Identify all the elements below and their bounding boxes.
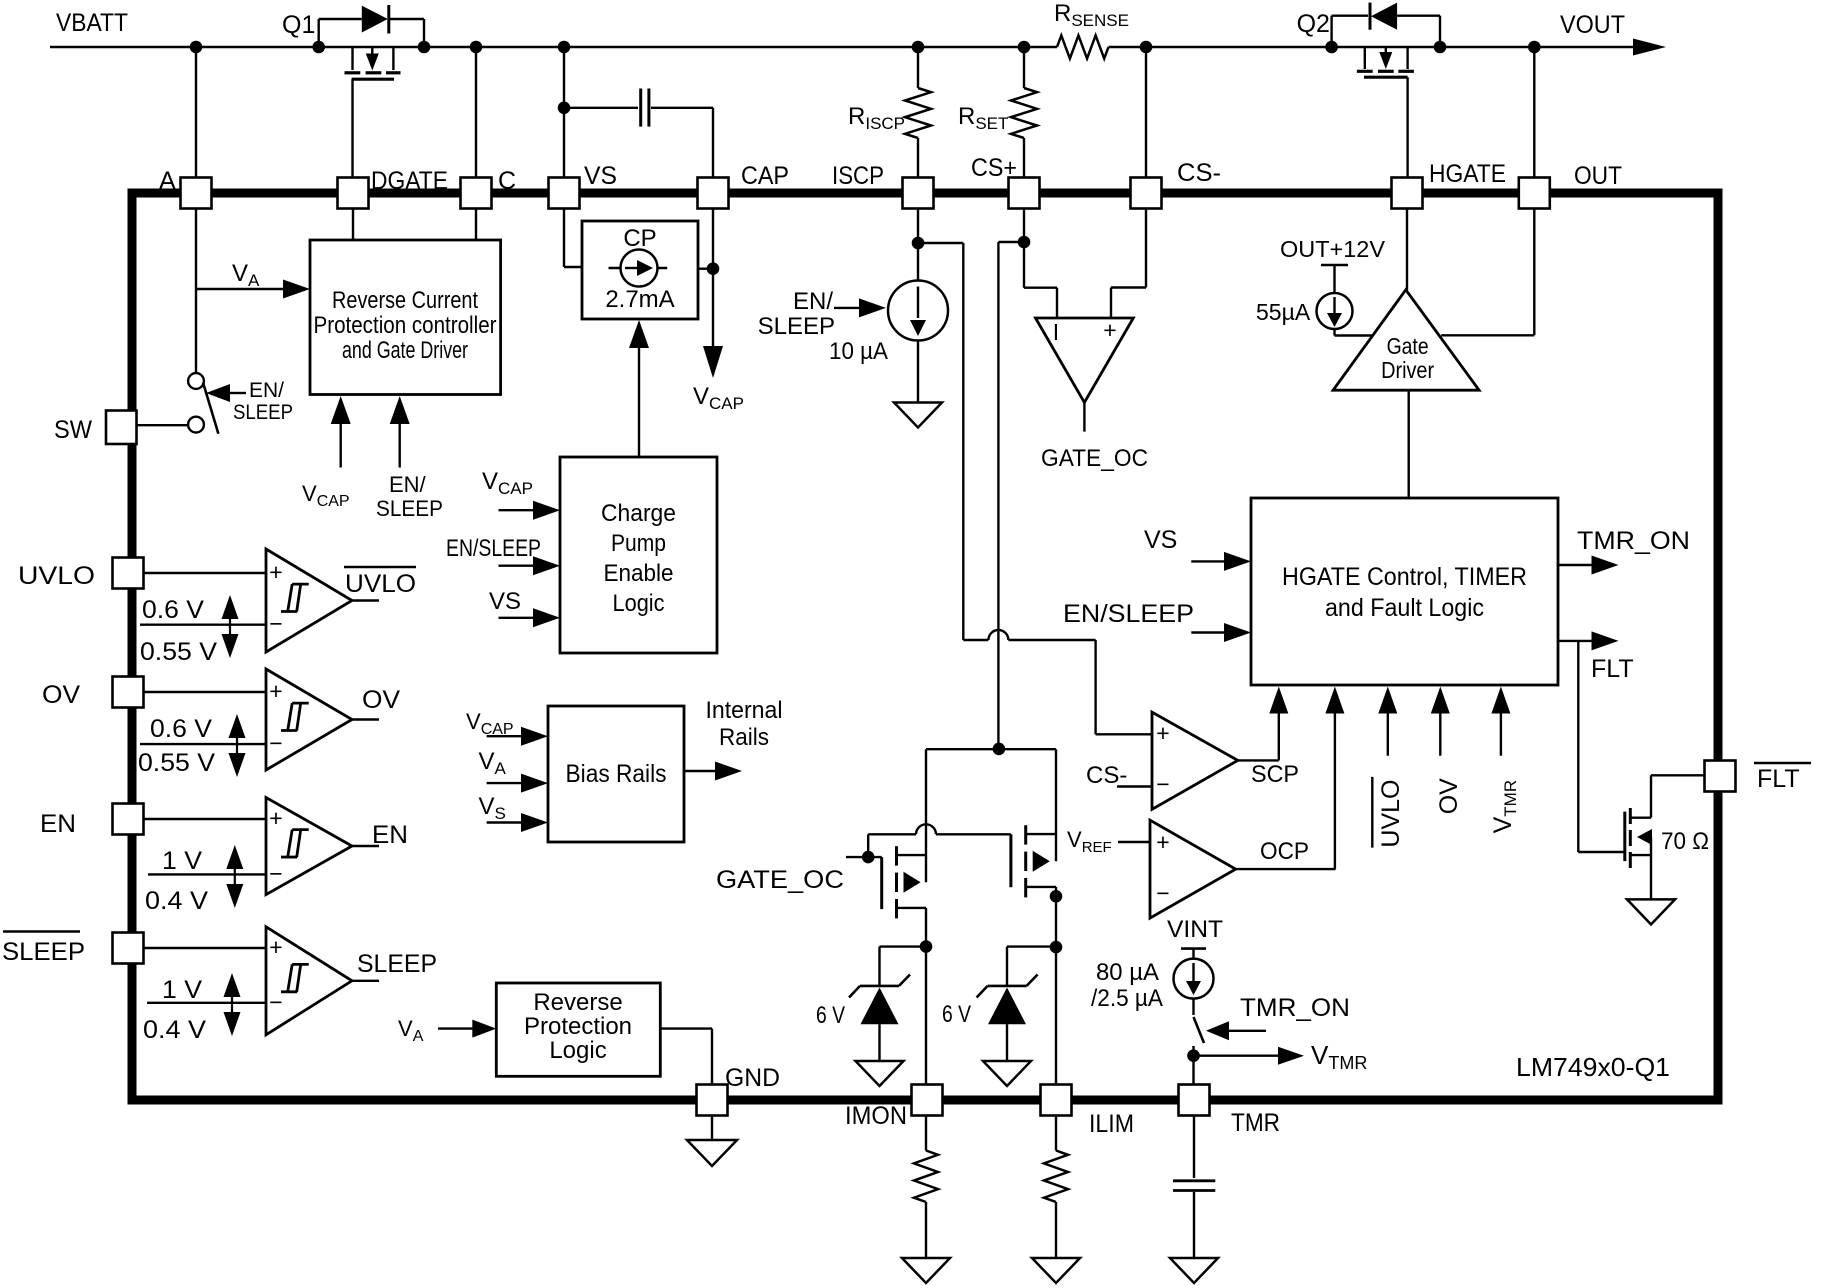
svg-text:+: + bbox=[269, 805, 282, 831]
wire VBATT top rail bbox=[50, 46, 1633, 48]
arrow OV into HGATE control bbox=[1431, 687, 1450, 756]
ground (TMR) bbox=[1170, 1258, 1218, 1283]
svg-text:1 V: 1 V bbox=[162, 847, 202, 875]
svg-text:80 µA: 80 µA bbox=[1096, 959, 1159, 986]
label 55uA bbox=[1256, 299, 1311, 325]
wire HGATE pin to gate driver bbox=[1406, 209, 1408, 291]
label 0.4 V (EN) bbox=[145, 887, 208, 915]
comparator OCP bbox=[1150, 820, 1236, 918]
arrow VTMR into HGATE control bbox=[1491, 687, 1510, 756]
svg-text:I: I bbox=[1053, 319, 1059, 345]
svg-text:SLEEP: SLEEP bbox=[376, 496, 443, 521]
comparator GATE_OC sense amp bbox=[1036, 317, 1134, 403]
svg-text:CS-: CS- bbox=[1086, 762, 1127, 789]
arrow VCAP into RCP box bbox=[331, 396, 351, 468]
arrow Internal Rails output bbox=[684, 762, 742, 781]
wire GND pin to ground bbox=[711, 1116, 713, 1141]
arrow EN/SLEEP into CPEL bbox=[499, 556, 561, 575]
transistor Q1 bbox=[345, 47, 401, 178]
arrow CP enable into CP box bbox=[629, 320, 649, 457]
label pin UVLO bbox=[18, 562, 95, 590]
wire C column to rail bbox=[470, 41, 483, 178]
svg-text:Bias Rails: Bias Rails bbox=[566, 760, 667, 788]
svg-text:EN/: EN/ bbox=[389, 472, 427, 497]
svg-text:SCP: SCP bbox=[1251, 761, 1299, 788]
label pin TMR bbox=[1231, 1109, 1280, 1137]
label pin CS+ bbox=[971, 154, 1017, 182]
svg-text:HGATE: HGATE bbox=[1429, 160, 1506, 188]
svg-text:−: − bbox=[1156, 771, 1169, 797]
svg-text:OV: OV bbox=[42, 681, 80, 709]
comparator UVLO bbox=[140, 549, 379, 652]
wire SCP output bbox=[1238, 759, 1279, 761]
svg-text:TMR: TMR bbox=[1231, 1109, 1280, 1137]
label pin C bbox=[498, 167, 516, 195]
svg-text:VBATT: VBATT bbox=[56, 9, 128, 37]
svg-text:Gate: Gate bbox=[1387, 333, 1429, 359]
label VCAP (CPEL) bbox=[482, 468, 533, 498]
svg-text:SLEEP: SLEEP bbox=[2, 938, 85, 966]
label pin CS- bbox=[1177, 159, 1221, 187]
label VCAP (below CAP) bbox=[693, 383, 744, 413]
label RISCP bbox=[848, 103, 905, 133]
current source 10uA bbox=[888, 281, 948, 341]
label VA (RCP input) bbox=[232, 260, 260, 290]
wire A column bbox=[195, 47, 197, 373]
svg-text:DGATE: DGATE bbox=[371, 167, 448, 195]
svg-text:FLT: FLT bbox=[1591, 655, 1634, 683]
svg-text:SLEEP: SLEEP bbox=[758, 313, 835, 340]
svg-text:−: − bbox=[269, 989, 282, 1015]
switch TMR_ON bbox=[1187, 999, 1204, 1085]
wire TMR pin down bbox=[1193, 1116, 1195, 1179]
label OV comparator output bbox=[362, 686, 400, 714]
svg-text:EN: EN bbox=[40, 810, 76, 838]
resistor RSET bbox=[1011, 47, 1037, 178]
svg-text:UVLO: UVLO bbox=[1377, 780, 1405, 848]
svg-text:FLT: FLT bbox=[1757, 765, 1800, 793]
wire OUT column bbox=[1533, 47, 1535, 178]
svg-text:10 µA: 10 µA bbox=[829, 338, 888, 365]
arrow EN/SLEEP into 10uA source bbox=[834, 298, 886, 317]
svg-text:Driver: Driver bbox=[1381, 357, 1434, 383]
resistor RISCP bbox=[905, 47, 931, 178]
wire 55uA to gate driver bbox=[1335, 329, 1373, 336]
svg-text:EN/: EN/ bbox=[249, 379, 284, 402]
svg-text:UVLO: UVLO bbox=[18, 562, 95, 590]
label 1 V (SLEEP) bbox=[162, 976, 202, 1004]
svg-text:+: + bbox=[269, 678, 282, 704]
svg-text:VS: VS bbox=[489, 588, 521, 615]
junction dots top rail bbox=[190, 41, 1541, 54]
svg-text:0.4 V: 0.4 V bbox=[143, 1016, 206, 1044]
transistor M1 bbox=[882, 749, 926, 918]
svg-text:TMR_ON: TMR_ON bbox=[1577, 527, 1690, 555]
label VCAP (Bias) bbox=[466, 709, 514, 738]
label VS (HGATE control) bbox=[1144, 526, 1177, 554]
label VTMR bbox=[1311, 1040, 1367, 1073]
ground (Z2) bbox=[983, 1061, 1031, 1086]
label 0.6 V (OV) bbox=[150, 715, 212, 743]
label VA (Bias) bbox=[479, 748, 507, 778]
switch SW (EN/SLEEP controlled) bbox=[188, 373, 218, 434]
svg-text:0.55 V: 0.55 V bbox=[138, 749, 215, 777]
svg-text:0.55 V: 0.55 V bbox=[140, 638, 217, 666]
svg-text:Pump: Pump bbox=[611, 530, 666, 557]
svg-text:CS-: CS- bbox=[1177, 159, 1221, 187]
wire OUT pin to gate driver bbox=[1441, 209, 1534, 336]
svg-text:Reverse: Reverse bbox=[533, 989, 622, 1016]
ground (IMON) bbox=[902, 1258, 950, 1283]
current source 55uA bbox=[1317, 265, 1353, 329]
wire DGATE to RCP box bbox=[352, 209, 354, 241]
wire CS- pin down bbox=[1111, 209, 1146, 319]
svg-text:EN/SLEEP: EN/SLEEP bbox=[1063, 600, 1194, 628]
svg-text:CP: CP bbox=[623, 225, 656, 252]
label pin EN bbox=[40, 810, 76, 838]
ground (M3) bbox=[1627, 899, 1675, 924]
wire C to RCP box bbox=[475, 209, 477, 241]
label pin IMON bbox=[845, 1102, 907, 1130]
svg-text:+: + bbox=[269, 559, 282, 585]
block Reverse Current Protection controller and Gate Driver bbox=[310, 240, 501, 395]
label 1 V (EN) bbox=[162, 847, 202, 875]
resistor R IMON bbox=[914, 1116, 938, 1259]
label 0.4 V (SLEEP) bbox=[143, 1016, 206, 1044]
svg-text:Logic: Logic bbox=[549, 1037, 606, 1064]
svg-text:SLEEP: SLEEP bbox=[357, 950, 437, 978]
block CP charge pump bbox=[582, 221, 698, 319]
arrow TMR_ON output bbox=[1558, 556, 1619, 575]
label EN/SLEEP (switch) bbox=[233, 379, 293, 424]
block HGATE Control TIMER and Fault Logic bbox=[1251, 498, 1558, 685]
svg-text:GATE_OC: GATE_OC bbox=[1041, 445, 1148, 472]
label TMR_ON (switch) bbox=[1240, 994, 1350, 1022]
wire CS+ pin down bbox=[1018, 209, 1031, 288]
label VINT bbox=[1167, 916, 1223, 943]
label pin SLEEP bbox=[2, 932, 85, 967]
svg-text:CS+: CS+ bbox=[971, 154, 1017, 182]
label UVLO rotated bbox=[1372, 777, 1405, 848]
diode D1 (Q1 body diode) bbox=[319, 5, 424, 47]
label GATE_OC (gate input) bbox=[716, 866, 844, 894]
label EN/SLEEP (HGATE control) bbox=[1063, 600, 1194, 628]
comparator EN bbox=[144, 798, 380, 895]
capacitor C TMR bbox=[1173, 1181, 1215, 1258]
svg-text:SLEEP: SLEEP bbox=[233, 401, 293, 424]
comparator SLEEP bbox=[144, 927, 380, 1035]
label pin CAP bbox=[741, 162, 789, 190]
svg-text:6 V: 6 V bbox=[942, 1001, 971, 1028]
label OCP bbox=[1260, 838, 1309, 865]
svg-text:+: + bbox=[1156, 829, 1169, 855]
arrow VTMR output bbox=[1194, 1047, 1305, 1065]
arrow SCP into HGATE control bbox=[1269, 687, 1288, 761]
wire GATE_OC output bbox=[1083, 403, 1085, 432]
label pin VS bbox=[584, 162, 617, 190]
svg-text:ILIM: ILIM bbox=[1089, 1110, 1134, 1138]
wire drain rail M1-M2 bbox=[926, 743, 1056, 756]
svg-text:70 Ω: 70 Ω bbox=[1661, 828, 1709, 855]
svg-text:and Gate Driver: and Gate Driver bbox=[342, 337, 468, 364]
transistor M3 (70 ohm) bbox=[1625, 808, 1652, 899]
svg-text:VOUT: VOUT bbox=[1560, 11, 1625, 39]
arrow VA into RPL bbox=[438, 1020, 496, 1038]
label pin ISCP bbox=[832, 162, 884, 190]
wire SW pin bbox=[137, 424, 188, 426]
pin boxes bbox=[113, 178, 1736, 1116]
ground (ILIM) bbox=[1032, 1258, 1080, 1283]
label TMR_ON bbox=[1577, 527, 1690, 555]
svg-text:−: − bbox=[269, 611, 282, 637]
svg-text:VINT: VINT bbox=[1167, 916, 1223, 943]
svg-text:Protection controller: Protection controller bbox=[314, 312, 497, 339]
label RSENSE bbox=[1054, 0, 1129, 30]
label VCAP (RCP input) bbox=[302, 481, 350, 510]
wire OCP output bbox=[1236, 868, 1336, 870]
svg-text:0.6 V: 0.6 V bbox=[150, 715, 212, 743]
wire M1 source to IMON bbox=[920, 908, 933, 1085]
label Q2 bbox=[1297, 10, 1330, 38]
label VS (Bias) bbox=[479, 793, 506, 823]
arrow EN/SLEEP into HGATE control bbox=[1191, 623, 1251, 642]
svg-text:ISCP: ISCP bbox=[832, 162, 884, 190]
svg-text:Charge: Charge bbox=[601, 500, 676, 527]
svg-text:GATE_OC: GATE_OC bbox=[716, 866, 844, 894]
arrow VCAP into CPEL bbox=[499, 501, 561, 520]
label pin OV bbox=[42, 681, 80, 709]
label OV rotated bbox=[1435, 778, 1463, 814]
svg-text:+: + bbox=[1156, 720, 1169, 746]
svg-text:LM749x0-Q1: LM749x0-Q1 bbox=[1516, 1052, 1670, 1082]
svg-text:C: C bbox=[498, 167, 516, 195]
wire CS+ long vertical bbox=[998, 242, 1024, 749]
svg-text:Logic: Logic bbox=[613, 590, 665, 617]
label VTMR rotated bbox=[1489, 780, 1520, 834]
label EN comparator output bbox=[372, 821, 408, 849]
pin SW box bbox=[106, 411, 137, 445]
arrow VS into Bias Rails bbox=[487, 813, 548, 832]
hysteresis arrow OV bbox=[229, 714, 246, 777]
label 6 V (Z1) bbox=[816, 1002, 845, 1029]
label pin DGATE bbox=[371, 167, 448, 195]
label Internal Rails bbox=[706, 697, 783, 751]
label GATE_OC (net) bbox=[1041, 445, 1148, 472]
svg-text:HGATE Control, TIMER: HGATE Control, TIMER bbox=[1282, 563, 1527, 591]
arrow VCAP into Bias Rails bbox=[487, 727, 548, 746]
svg-text:Reverse Current: Reverse Current bbox=[332, 287, 478, 314]
wire GATE_OC to M1 gate bbox=[846, 851, 882, 864]
hysteresis arrow SLEEP bbox=[224, 973, 241, 1036]
svg-text:OUT: OUT bbox=[1574, 162, 1622, 190]
label VBATT bbox=[56, 9, 128, 37]
block Charge Pump Enable Logic bbox=[560, 457, 717, 653]
arrow VCAP down bbox=[703, 346, 723, 378]
label 0.55 V (UVLO) bbox=[140, 638, 217, 666]
svg-text:1 V: 1 V bbox=[162, 976, 202, 1004]
svg-text:A: A bbox=[159, 167, 176, 195]
arrow FLT output bbox=[1558, 631, 1619, 650]
label pin GND bbox=[725, 1064, 780, 1092]
label 80uA/2.5uA bbox=[1091, 959, 1163, 1012]
wire ISCP to SCP comparator bbox=[918, 243, 1152, 734]
svg-text:+: + bbox=[269, 934, 282, 960]
svg-text:VS: VS bbox=[584, 162, 617, 190]
comparator SCP bbox=[1152, 712, 1238, 809]
label VS (CPEL) bbox=[489, 588, 521, 615]
arrow VS into HGATE control bbox=[1191, 552, 1251, 571]
svg-text:OCP: OCP bbox=[1260, 838, 1309, 865]
wire gate driver to HGATE control bbox=[1407, 390, 1409, 498]
svg-text:EN/: EN/ bbox=[793, 288, 833, 315]
label EN/SLEEP (CPEL) bbox=[446, 535, 541, 562]
svg-text:+: + bbox=[1103, 317, 1116, 343]
wire CS- column bbox=[1145, 47, 1147, 178]
svg-text:Enable: Enable bbox=[604, 560, 674, 587]
transistor M2 bbox=[1011, 749, 1056, 897]
block Bias Rails bbox=[548, 706, 684, 842]
block Reverse Protection Logic bbox=[496, 983, 660, 1076]
label 0.6 V (UVLO) bbox=[142, 596, 204, 624]
label 10 uA bbox=[829, 338, 888, 365]
resistor R ILIM bbox=[1044, 1116, 1068, 1259]
svg-text:0.6 V: 0.6 V bbox=[142, 596, 204, 624]
arrow OCP into HGATE control bbox=[1325, 687, 1344, 870]
svg-text:/2.5 µA: /2.5 µA bbox=[1091, 985, 1163, 1012]
svg-text:OV: OV bbox=[1435, 778, 1463, 814]
label RSET bbox=[958, 103, 1008, 133]
label FLT (internal) bbox=[1591, 655, 1634, 683]
svg-text:EN/SLEEP: EN/SLEEP bbox=[446, 535, 541, 562]
arrow TMR_ON to switch bbox=[1206, 1021, 1266, 1040]
label 6 V (Z2) bbox=[942, 1001, 971, 1028]
svg-text:Q1: Q1 bbox=[282, 11, 315, 39]
svg-text:CAP: CAP bbox=[741, 162, 789, 190]
svg-text:TMR_ON: TMR_ON bbox=[1240, 994, 1350, 1022]
arrow VS into CPEL bbox=[499, 608, 561, 627]
hysteresis arrow UVLO bbox=[222, 595, 239, 658]
transistor Q2 bbox=[1357, 47, 1414, 178]
svg-text:IMON: IMON bbox=[845, 1102, 907, 1130]
svg-text:−: − bbox=[1156, 880, 1169, 906]
IC border bbox=[132, 193, 1718, 1100]
svg-text:0.4 V: 0.4 V bbox=[145, 887, 208, 915]
svg-text:Protection: Protection bbox=[524, 1013, 632, 1040]
wire VS to CP box bbox=[564, 209, 582, 268]
label pin OUT bbox=[1574, 162, 1622, 190]
arrow EN/SLEEP to switch bbox=[206, 384, 246, 402]
zener Z2 6V bbox=[977, 947, 1056, 1061]
label pin A bbox=[159, 167, 176, 195]
label pin ILIM bbox=[1089, 1110, 1134, 1138]
label pin HGATE bbox=[1429, 160, 1506, 188]
svg-text:−: − bbox=[269, 860, 282, 886]
wire FLT net to M3 gate bbox=[1578, 641, 1625, 852]
label CS- (SCP input) bbox=[1086, 762, 1152, 789]
label VOUT bbox=[1560, 11, 1625, 39]
label EN/SLEEP (RCP input) bbox=[376, 472, 443, 521]
node VOUT arrowhead bbox=[1633, 39, 1666, 56]
svg-text:55µA: 55µA bbox=[1256, 299, 1311, 325]
ground (GND pin) bbox=[687, 1140, 737, 1166]
arrow UVLO into HGATE control bbox=[1378, 687, 1397, 756]
wire VA to RCP box bbox=[196, 280, 310, 299]
label VA (RPL) bbox=[398, 1016, 424, 1045]
svg-text:GND: GND bbox=[725, 1064, 780, 1092]
wire ISCP pin down bbox=[912, 209, 925, 281]
ground (Z1) bbox=[856, 1061, 904, 1086]
diode D2 (Q2 body diode) bbox=[1332, 3, 1440, 47]
svg-text:SW: SW bbox=[54, 416, 92, 444]
svg-text:6 V: 6 V bbox=[816, 1002, 845, 1029]
label 0.55 V (OV) bbox=[138, 749, 215, 777]
wire VS column bbox=[563, 47, 565, 178]
svg-text:−: − bbox=[269, 730, 282, 756]
label pin FLT bbox=[1754, 763, 1811, 793]
wire RPL to GND pin bbox=[660, 1029, 712, 1085]
svg-text:Rails: Rails bbox=[719, 724, 769, 751]
hysteresis arrow EN bbox=[226, 845, 243, 908]
label Q1 bbox=[282, 11, 315, 39]
svg-text:OUT+12V: OUT+12V bbox=[1280, 236, 1386, 262]
label SLEEP comparator output bbox=[357, 950, 437, 978]
label SCP bbox=[1251, 761, 1299, 788]
svg-text:Internal: Internal bbox=[706, 697, 783, 724]
wire 10uA to ground bbox=[917, 341, 919, 403]
wire CAP column / VCAP out bbox=[698, 209, 719, 349]
svg-text:2.7mA: 2.7mA bbox=[605, 286, 674, 313]
wire gate tie M1-M2 bbox=[868, 824, 1011, 857]
op-amp Gate Driver bbox=[1333, 290, 1479, 390]
resistor RSENSE bbox=[1057, 36, 1109, 59]
arrow EN/SLEEP into RCP box bbox=[390, 396, 410, 468]
svg-text:EN: EN bbox=[372, 821, 408, 849]
wire FLT pin to M3 drain bbox=[1651, 775, 1705, 817]
comparator OV bbox=[140, 669, 379, 770]
current source VINT 80uA/2.5uA bbox=[1174, 949, 1214, 999]
arrow VA into Bias Rails bbox=[487, 774, 548, 793]
svg-text:VS: VS bbox=[1144, 526, 1177, 554]
svg-text:UVLO: UVLO bbox=[345, 570, 416, 598]
svg-text:and Fault Logic: and Fault Logic bbox=[1325, 594, 1484, 622]
label 70 ohm bbox=[1661, 828, 1709, 855]
label OUT+12V bbox=[1280, 236, 1386, 262]
label LM749x0-Q1 bbox=[1516, 1052, 1670, 1082]
ground (10uA source) bbox=[894, 403, 942, 428]
wire CS+ to GATE_OC comparator bbox=[1024, 288, 1057, 318]
svg-text:Q2: Q2 bbox=[1297, 10, 1330, 38]
label pin SW bbox=[54, 416, 92, 444]
label EN/SLEEP (10uA) bbox=[758, 288, 835, 340]
svg-text:OV: OV bbox=[362, 686, 400, 714]
label VREF (OCP input) bbox=[1067, 827, 1150, 856]
zener Z1 6V bbox=[849, 947, 926, 1061]
current source CP 2.7mA bbox=[609, 250, 668, 287]
wire M2 source to ILIM bbox=[1050, 887, 1063, 1085]
label UVLO comparator output bbox=[344, 567, 416, 598]
label 2.7mA bbox=[605, 286, 674, 313]
capacitor C1 (VS-CAP) bbox=[558, 89, 713, 178]
